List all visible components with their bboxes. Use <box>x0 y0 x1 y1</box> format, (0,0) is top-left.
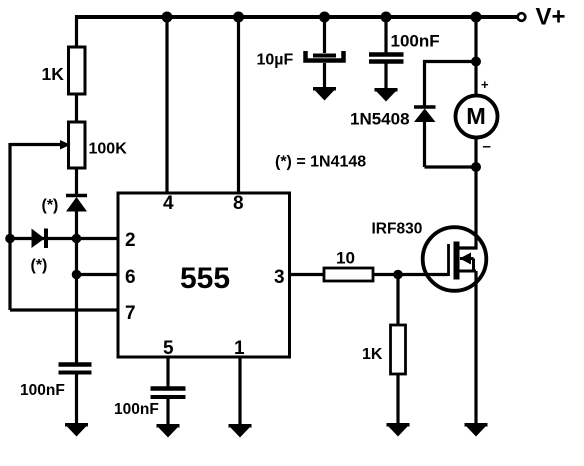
svg-text:(*): (*) <box>31 257 48 274</box>
svg-text:555: 555 <box>180 262 230 295</box>
svg-text:4: 4 <box>163 193 174 214</box>
wire: pin 8 to rail <box>237 17 240 193</box>
diode D3 1N5408 <box>414 107 436 122</box>
wire: gate line <box>373 273 448 276</box>
node: D2 anode junction <box>5 234 15 244</box>
node: gate junction <box>393 270 403 280</box>
svg-text:100nF: 100nF <box>391 32 440 51</box>
resistor 1K (top left) <box>69 47 86 94</box>
svg-text:(*) = 1N4148: (*) = 1N4148 <box>275 154 366 171</box>
wire: left loop vertical (wiper to pin7) <box>8 143 11 310</box>
wire: motor branch from rail <box>474 17 477 95</box>
svg-text:1: 1 <box>234 338 245 359</box>
resistor R3 10 <box>324 268 373 281</box>
wire: gate to R4 <box>396 275 399 326</box>
IC U1 555 timer body <box>118 193 290 357</box>
wire: rail drop to R1 <box>75 16 78 48</box>
wire: pot bottom to diode D1 <box>75 168 78 197</box>
wire: D1 to pin2 node, down to C1 <box>75 211 78 365</box>
svg-text:+: + <box>481 77 489 92</box>
svg-text:2: 2 <box>125 230 136 251</box>
diode D1 (*) vertical <box>66 196 87 212</box>
wire: R1 to potentiometer <box>75 94 78 122</box>
svg-text:1K: 1K <box>362 346 383 363</box>
node: motor bottom junction <box>471 162 481 172</box>
svg-text:M: M <box>466 103 486 129</box>
node: pin2 junction <box>72 234 82 244</box>
svg-text:100K: 100K <box>89 141 128 158</box>
wire: R4 to ground <box>396 374 399 424</box>
svg-text:10µF: 10µF <box>257 52 294 69</box>
wire: C1 to ground <box>75 374 78 424</box>
ground (C4) <box>375 88 398 102</box>
wire: pin 1 to ground <box>238 357 241 425</box>
svg-text:1N5408: 1N5408 <box>350 110 410 129</box>
wire: pin 4 to rail <box>165 17 168 193</box>
ground (C2) <box>157 424 180 438</box>
node: motor top junction <box>471 57 481 67</box>
svg-text:1K: 1K <box>42 64 65 84</box>
node: pin6 junction <box>72 270 82 280</box>
svg-text:10: 10 <box>336 249 355 268</box>
svg-text:100nF: 100nF <box>114 401 159 418</box>
wire: C2 to ground <box>166 398 169 425</box>
wire: pin 5 stub <box>166 357 169 389</box>
ground (R4) <box>387 423 410 437</box>
ground (pin 1) <box>229 424 252 438</box>
capacitor C2 100nF (pin 5) <box>151 389 186 398</box>
transistor Q1 IRF830 <box>423 167 487 424</box>
svg-text:7: 7 <box>125 303 136 324</box>
wire: pin 7 line <box>10 308 118 311</box>
ground (C1) <box>65 423 88 437</box>
wire: pin 6 line <box>77 273 119 276</box>
V+ terminal <box>518 13 526 21</box>
capacitor C3 10uF <box>306 16 344 89</box>
capacitor C1 100nF (left) <box>59 365 92 373</box>
node: rail junction C 100nF <box>381 12 392 23</box>
node: rail junction pin8 <box>233 12 244 23</box>
svg-text:(*): (*) <box>42 197 59 214</box>
wire: pin 2 line <box>10 237 118 240</box>
svg-text:100nF: 100nF <box>20 382 65 399</box>
wire: V+ supply rail <box>75 15 517 19</box>
node: rail junction C 10uF <box>319 12 330 23</box>
node: rail junction motor branch <box>471 12 482 23</box>
potentiometer 100K <box>10 122 85 168</box>
resistor R4 1K <box>391 325 406 374</box>
svg-text:6: 6 <box>125 267 136 288</box>
svg-text:IRF830: IRF830 <box>372 221 423 238</box>
diode D2 (*) horizontal <box>32 229 47 249</box>
ground (source) <box>465 423 488 437</box>
svg-text:3: 3 <box>274 267 285 288</box>
svg-text:5: 5 <box>163 338 174 359</box>
capacitor C4 100nF (top) <box>369 16 404 90</box>
wire: motor to MOSFET drain <box>474 138 477 167</box>
wire: flyback diode loop <box>425 62 477 168</box>
node: rail junction pin4 <box>162 12 173 23</box>
svg-text:V+: V+ <box>536 4 566 31</box>
svg-text:8: 8 <box>233 193 244 214</box>
svg-text:–: – <box>483 138 491 155</box>
wire: pin 3 to gate resistor <box>289 273 324 276</box>
motor M1 <box>456 96 498 138</box>
ground (C3) <box>313 87 336 101</box>
